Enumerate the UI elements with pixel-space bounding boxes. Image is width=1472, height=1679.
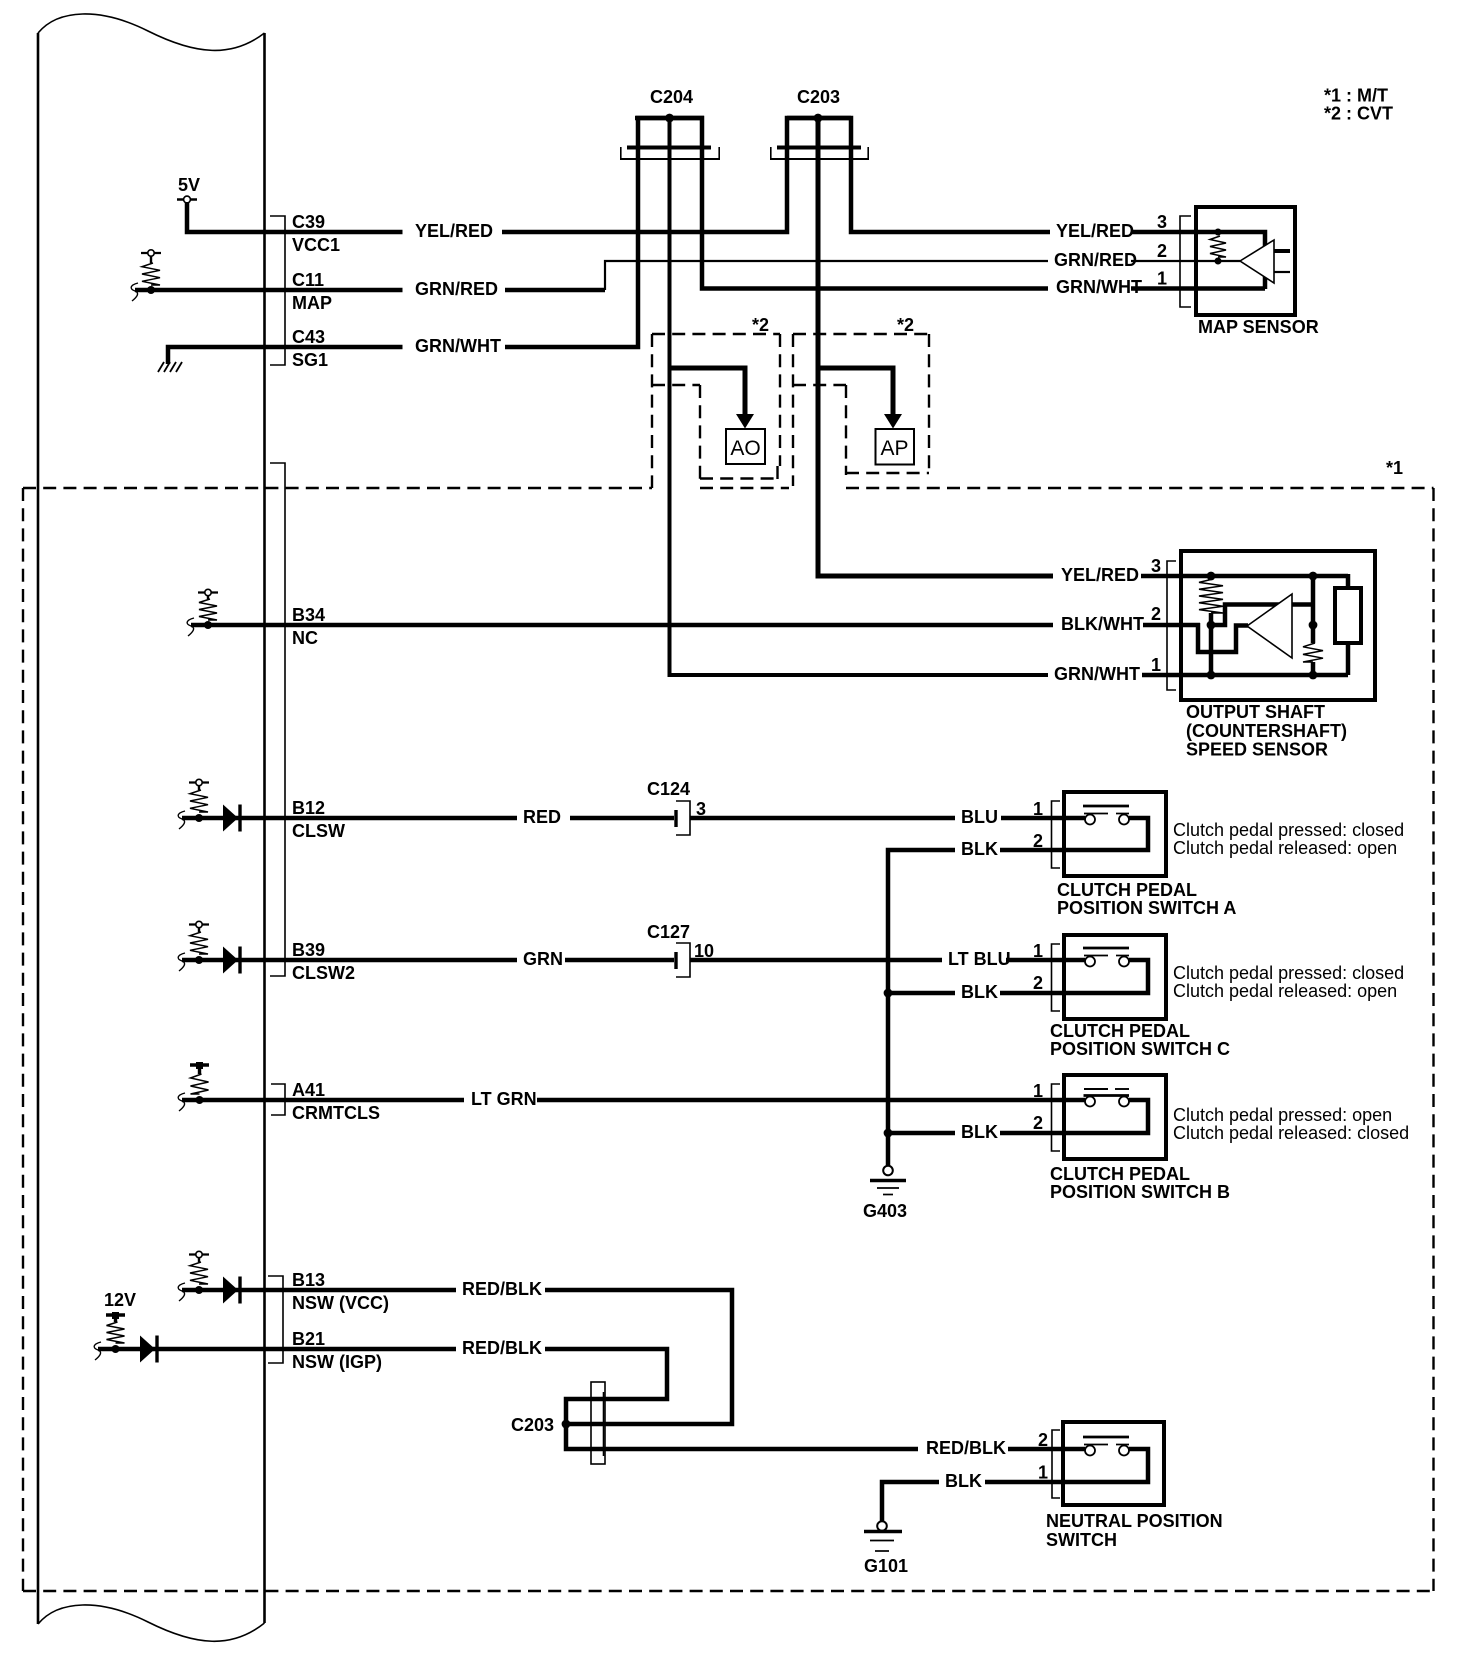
label LT BLU bbox=[948, 949, 1011, 969]
label RED/BLK (B13) bbox=[462, 1279, 542, 1299]
12V supply with resistor at pin B21 bbox=[104, 1290, 136, 1353]
svg-text:2: 2 bbox=[1038, 1430, 1048, 1450]
wire BLK/WHT from pin B34 to speed sensor pin 2 bbox=[191, 623, 1248, 652]
svg-text:2: 2 bbox=[1151, 604, 1161, 624]
wire BLK from switch B pin 2 bbox=[884, 1129, 1064, 1138]
label OUTPUT SHAFT (COUNTERSHAFT) SPEED SENSOR bbox=[1186, 702, 1347, 760]
switch C contacts and blade bbox=[1083, 948, 1129, 967]
svg-text:OUTPUT SHAFT: OUTPUT SHAFT bbox=[1186, 702, 1325, 722]
svg-text:1: 1 bbox=[1157, 269, 1167, 289]
destination box AO bbox=[726, 429, 765, 464]
svg-text:YEL/RED: YEL/RED bbox=[1061, 565, 1139, 585]
wire-end hook B34 bbox=[187, 618, 194, 636]
pin label C39/VCC1 bbox=[292, 212, 340, 255]
wire-end hook C11 bbox=[131, 283, 138, 301]
svg-text:SPEED SENSOR: SPEED SENSOR bbox=[1186, 740, 1328, 760]
svg-text:LT GRN: LT GRN bbox=[471, 1089, 537, 1109]
MAP sensor box bbox=[1196, 207, 1295, 315]
diode at pin B13 bbox=[223, 1277, 240, 1304]
svg-text:BLK: BLK bbox=[961, 839, 998, 859]
resistor pull-up with supply terminal at pin B34 bbox=[198, 589, 218, 629]
wire YEL/RED from C203 to output shaft speed sensor pin 3 bbox=[818, 118, 1348, 590]
svg-text:CRMTCLS: CRMTCLS bbox=[292, 1103, 380, 1123]
svg-text:2: 2 bbox=[1033, 1113, 1043, 1133]
switch A state notes bbox=[1173, 820, 1404, 858]
wire RED/BLK from pin B21 through C203 to neutral position switch pin 2 bbox=[98, 1349, 1085, 1449]
neutral switch internal wire loop to pin 1 bbox=[1063, 1449, 1148, 1482]
svg-text:C43: C43 bbox=[292, 327, 325, 347]
svg-text:A41: A41 bbox=[292, 1080, 325, 1100]
svg-text:2: 2 bbox=[1033, 973, 1043, 993]
svg-text:Clutch pedal pressed: open: Clutch pedal pressed: open bbox=[1173, 1105, 1392, 1125]
label GRN/WHT (left) bbox=[415, 336, 501, 356]
pin label A41/CRMTCLS bbox=[292, 1080, 380, 1123]
wire GRN from pin B39 through C127 to clutch pedal position switch C pin 1 (LT BLU) bbox=[182, 958, 1085, 963]
svg-text:CLUTCH PEDAL: CLUTCH PEDAL bbox=[1057, 880, 1197, 900]
svg-text:YEL/RED: YEL/RED bbox=[415, 221, 493, 241]
dashed box *2 around AO (CVT variant) bbox=[652, 334, 780, 488]
svg-text:10: 10 bbox=[694, 941, 714, 961]
svg-text:BLK/WHT: BLK/WHT bbox=[1061, 614, 1144, 634]
svg-text:B34: B34 bbox=[292, 605, 325, 625]
svg-text:*2: *2 bbox=[752, 315, 769, 335]
label BLK (switch A) bbox=[961, 839, 998, 859]
svg-text:YEL/RED: YEL/RED bbox=[1056, 221, 1134, 241]
label CLUTCH PEDAL POSITION SWITCH A bbox=[1057, 880, 1236, 918]
connector bracket pins B34/B12/B39 bbox=[270, 463, 285, 976]
label BLK/WHT bbox=[1061, 614, 1144, 634]
svg-text:C204: C204 bbox=[650, 87, 693, 107]
svg-text:POSITION SWITCH B: POSITION SWITCH B bbox=[1050, 1182, 1230, 1202]
svg-text:NC: NC bbox=[292, 628, 318, 648]
svg-text:CLUTCH PEDAL: CLUTCH PEDAL bbox=[1050, 1164, 1190, 1184]
svg-text:5V: 5V bbox=[178, 175, 200, 195]
svg-text:POSITION SWITCH A: POSITION SWITCH A bbox=[1057, 898, 1236, 918]
switch C connector bracket + pin numbers bbox=[1033, 941, 1060, 1011]
svg-text:RED/BLK: RED/BLK bbox=[462, 1338, 542, 1358]
label LT GRN bbox=[471, 1089, 537, 1109]
svg-text:3: 3 bbox=[1157, 212, 1167, 232]
svg-text:MAP: MAP bbox=[292, 293, 332, 313]
wire-end hook A41 bbox=[178, 1093, 185, 1111]
resistor pull-up with supply terminal at pin B13 bbox=[189, 1251, 209, 1294]
destination box AP bbox=[876, 429, 915, 465]
svg-text:12V: 12V bbox=[104, 1290, 136, 1310]
svg-text:CLSW: CLSW bbox=[292, 821, 345, 841]
ground G403 bbox=[863, 1166, 907, 1221]
wire YEL/RED from pin C39 through C203 to MAP sensor pin 3 bbox=[187, 118, 1265, 289]
pin label B34/NC bbox=[292, 605, 325, 648]
resistor pull-up with supply terminal at pin C11 bbox=[141, 250, 161, 294]
diode at pin B12 bbox=[223, 805, 240, 832]
svg-text:Clutch pedal pressed: closed: Clutch pedal pressed: closed bbox=[1173, 820, 1404, 840]
5V supply terminal bbox=[177, 175, 200, 203]
chassis ground at pin C43/SG1 bbox=[158, 362, 182, 372]
svg-text:AO: AO bbox=[730, 437, 760, 460]
speed sensor internal node wiring bbox=[1211, 605, 1313, 626]
label GRN bbox=[523, 949, 563, 969]
label BLK (neutral switch) bbox=[945, 1471, 982, 1491]
label YEL/RED (left) bbox=[415, 221, 493, 241]
svg-text:G101: G101 bbox=[864, 1556, 908, 1576]
clutch pedal position switch C box bbox=[1064, 935, 1166, 1019]
connector C203 (lower, inline) bbox=[511, 1382, 605, 1464]
svg-text:C203: C203 bbox=[511, 1415, 554, 1435]
label GRN/RED (at MAP sensor) bbox=[1054, 250, 1137, 270]
speed sensor internal resistor (left) bbox=[1199, 572, 1223, 680]
neutral switch connector bracket + pin numbers bbox=[1038, 1430, 1060, 1498]
svg-text:C39: C39 bbox=[292, 212, 325, 232]
legend *1 : M/T, *2 : CVT bbox=[1324, 86, 1393, 124]
wire branch to AO (CVT) with arrow bbox=[670, 368, 755, 429]
svg-text:GRN/WHT: GRN/WHT bbox=[1056, 277, 1142, 297]
svg-text:Clutch pedal released: open: Clutch pedal released: open bbox=[1173, 981, 1397, 1001]
connector bracket pins C39/C11/C43 bbox=[270, 216, 285, 365]
connector C204 bbox=[620, 87, 720, 159]
svg-text:RED: RED bbox=[523, 807, 561, 827]
dashed box *2 around AP (CVT variant) bbox=[793, 334, 929, 486]
label RED/BLK (neutral switch) bbox=[926, 1438, 1006, 1458]
svg-text:GRN/WHT: GRN/WHT bbox=[415, 336, 501, 356]
diode at pin B21 bbox=[140, 1336, 157, 1363]
svg-text:1: 1 bbox=[1151, 655, 1161, 675]
svg-text:B39: B39 bbox=[292, 940, 325, 960]
svg-text:B21: B21 bbox=[292, 1329, 325, 1349]
connector bracket pin A41 bbox=[271, 1084, 285, 1115]
svg-text:C11: C11 bbox=[292, 270, 324, 290]
pin label B39/CLSW2 bbox=[292, 940, 355, 983]
switch B contacts and blade (closed) bbox=[1084, 1089, 1130, 1107]
svg-text:3: 3 bbox=[1151, 556, 1161, 576]
connector bracket pins B13/B21 bbox=[268, 1276, 283, 1363]
speed sensor internal amplifier bbox=[1247, 594, 1292, 658]
svg-text:LT BLU: LT BLU bbox=[948, 949, 1011, 969]
wire branch to AP (CVT) with arrow bbox=[818, 368, 902, 429]
connector C124 bbox=[647, 779, 706, 835]
svg-text:1: 1 bbox=[1038, 1463, 1048, 1483]
svg-text:B12: B12 bbox=[292, 798, 325, 818]
svg-text:CLSW2: CLSW2 bbox=[292, 963, 355, 983]
MAP sensor internal amplifier bbox=[1240, 240, 1290, 283]
wire-end hook B39 bbox=[178, 953, 185, 971]
svg-text:Clutch pedal pressed: closed: Clutch pedal pressed: closed bbox=[1173, 963, 1404, 983]
label BLK (switch C) bbox=[961, 982, 998, 1002]
pin label B21/NSW (IGP) bbox=[292, 1329, 382, 1372]
switch A connector bracket + pin numbers bbox=[1033, 799, 1060, 868]
ground G101 bbox=[864, 1521, 908, 1576]
svg-text:1: 1 bbox=[1033, 799, 1043, 819]
wire RED from pin B12 through C124 to clutch pedal position switch A pin 1 (BLU) bbox=[182, 816, 1085, 821]
wire GRN/WHT from pin C43 through C204 to MAP sensor pin 1 bbox=[168, 118, 1265, 364]
switch C internal wire loop to pin 2 bbox=[1064, 960, 1148, 993]
wire-end hook B13 bbox=[178, 1283, 185, 1301]
svg-text:VCC1: VCC1 bbox=[292, 235, 340, 255]
wire RED/BLK from pin B13 to connector C203 (lower) bbox=[182, 1290, 732, 1424]
label CLUTCH PEDAL POSITION SWITCH C bbox=[1050, 1021, 1230, 1059]
svg-text:RED/BLK: RED/BLK bbox=[926, 1438, 1006, 1458]
svg-text:SG1: SG1 bbox=[292, 350, 328, 370]
pin label C43/SG1 bbox=[292, 327, 328, 370]
MAP sensor internal resistor bbox=[1210, 229, 1226, 265]
svg-text:BLK: BLK bbox=[961, 1122, 998, 1142]
svg-text:NSW (IGP): NSW (IGP) bbox=[292, 1352, 382, 1372]
MAP sensor connector bracket + pin numbers bbox=[1157, 212, 1191, 307]
svg-text:POSITION SWITCH C: POSITION SWITCH C bbox=[1050, 1039, 1230, 1059]
label MAP SENSOR bbox=[1198, 317, 1319, 337]
wire LT GRN from pin A41 to clutch pedal position switch B pin 1 bbox=[182, 1098, 1085, 1103]
resistor pull-up with supply terminal at pin B39 bbox=[189, 921, 209, 964]
output shaft speed sensor box bbox=[1181, 551, 1375, 700]
svg-text:NSW (VCC): NSW (VCC) bbox=[292, 1293, 389, 1313]
svg-text:CLUTCH PEDAL: CLUTCH PEDAL bbox=[1050, 1021, 1190, 1041]
svg-text:2: 2 bbox=[1157, 241, 1167, 261]
svg-text:SWITCH: SWITCH bbox=[1046, 1530, 1117, 1550]
label RED/BLK (B21) bbox=[462, 1338, 542, 1358]
label *2 (AP box) bbox=[897, 315, 914, 335]
switch C state notes bbox=[1173, 963, 1404, 1001]
resistor pull-up with supply terminal at pin A41 bbox=[190, 1062, 209, 1104]
wire BLK from switch A pin 2 to ground riser bbox=[888, 850, 1064, 1165]
svg-text:C127: C127 bbox=[647, 922, 690, 942]
svg-text:C203: C203 bbox=[797, 87, 840, 107]
label BLK (switch B) bbox=[961, 1122, 998, 1142]
label GRN/RED (left) bbox=[415, 279, 498, 299]
svg-text:GRN/WHT: GRN/WHT bbox=[1054, 664, 1140, 684]
clutch pedal position switch B box bbox=[1064, 1075, 1166, 1159]
svg-text:MAP SENSOR: MAP SENSOR bbox=[1198, 317, 1319, 337]
svg-text:Clutch pedal released: closed: Clutch pedal released: closed bbox=[1173, 1123, 1409, 1143]
label GRN/WHT (at speed sensor) bbox=[1054, 664, 1140, 684]
wire BLK from neutral switch pin 1 to ground G101 bbox=[882, 1482, 1063, 1521]
neutral position switch box bbox=[1063, 1422, 1164, 1505]
resistor pull-up with supply terminal at pin B12 bbox=[189, 779, 209, 822]
svg-text:3: 3 bbox=[696, 799, 706, 819]
label CLUTCH PEDAL POSITION SWITCH B bbox=[1050, 1164, 1230, 1202]
svg-text:Clutch pedal released: open: Clutch pedal released: open bbox=[1173, 838, 1397, 858]
svg-text:RED/BLK: RED/BLK bbox=[462, 1279, 542, 1299]
svg-text:BLK: BLK bbox=[961, 982, 998, 1002]
svg-text:G403: G403 bbox=[863, 1201, 907, 1221]
switch B state notes bbox=[1173, 1105, 1409, 1143]
switch A contacts and blade bbox=[1083, 806, 1129, 825]
speed sensor connector bracket + pin numbers bbox=[1151, 556, 1176, 690]
svg-text:NEUTRAL POSITION: NEUTRAL POSITION bbox=[1046, 1511, 1223, 1531]
diode at pin B39 bbox=[223, 947, 240, 974]
svg-text:B13: B13 bbox=[292, 1270, 325, 1290]
switch A internal wire loop to pin 2 bbox=[1064, 818, 1148, 850]
pin label B13/NSW (VCC) bbox=[292, 1270, 389, 1313]
speed sensor internal resistor (right) bbox=[1303, 572, 1323, 680]
neutral switch contacts and blade bbox=[1083, 1437, 1129, 1456]
wire-end hook B12 bbox=[178, 811, 185, 829]
svg-text:1: 1 bbox=[1033, 941, 1043, 961]
connector C127 bbox=[647, 922, 714, 977]
svg-text:*1: *1 bbox=[1386, 458, 1403, 478]
speed sensor internal load resistor (rect) bbox=[1335, 588, 1361, 643]
connector C203 (top) bbox=[770, 87, 869, 159]
pin label B12/CLSW bbox=[292, 798, 345, 841]
label RED bbox=[523, 807, 561, 827]
svg-text:BLK: BLK bbox=[945, 1471, 982, 1491]
label BLU bbox=[961, 807, 998, 827]
svg-text:*2 : CVT: *2 : CVT bbox=[1324, 104, 1393, 124]
dashed box *1 (M/T variant) bbox=[23, 488, 1434, 1591]
wire GRN/WHT from C204 to output shaft speed sensor pin 1 bbox=[670, 118, 1349, 675]
svg-text:BLU: BLU bbox=[961, 807, 998, 827]
wire BLK from switch C pin 2 bbox=[884, 989, 1064, 998]
svg-text:(COUNTERSHAFT): (COUNTERSHAFT) bbox=[1186, 721, 1347, 741]
svg-text:C124: C124 bbox=[647, 779, 690, 799]
svg-text:*2: *2 bbox=[897, 315, 914, 335]
label NEUTRAL POSITION SWITCH bbox=[1046, 1511, 1223, 1550]
wire GRN/RED from pin C11 to MAP sensor pin 2 bbox=[135, 261, 1240, 290]
ECM/PCM block outline bbox=[38, 14, 265, 1641]
label YEL/RED (at MAP sensor) bbox=[1056, 221, 1134, 241]
clutch pedal position switch A box bbox=[1064, 792, 1166, 876]
svg-text:1: 1 bbox=[1033, 1081, 1043, 1101]
wire-end hook B21 bbox=[94, 1342, 101, 1360]
svg-text:GRN/RED: GRN/RED bbox=[1054, 250, 1137, 270]
switch B connector bracket + pin numbers bbox=[1033, 1081, 1060, 1151]
pin label C11/MAP bbox=[292, 270, 332, 313]
label *1 bbox=[1386, 458, 1403, 478]
label YEL/RED (at speed sensor) bbox=[1061, 565, 1139, 585]
svg-text:GRN/RED: GRN/RED bbox=[415, 279, 498, 299]
switch B internal wire loop to pin 2 bbox=[1064, 1100, 1148, 1133]
svg-text:GRN: GRN bbox=[523, 949, 563, 969]
svg-text:AP: AP bbox=[880, 437, 908, 460]
label *2 (AO box) bbox=[752, 315, 769, 335]
label GRN/WHT (at MAP sensor) bbox=[1056, 277, 1142, 297]
svg-text:*1 : M/T: *1 : M/T bbox=[1324, 86, 1388, 106]
